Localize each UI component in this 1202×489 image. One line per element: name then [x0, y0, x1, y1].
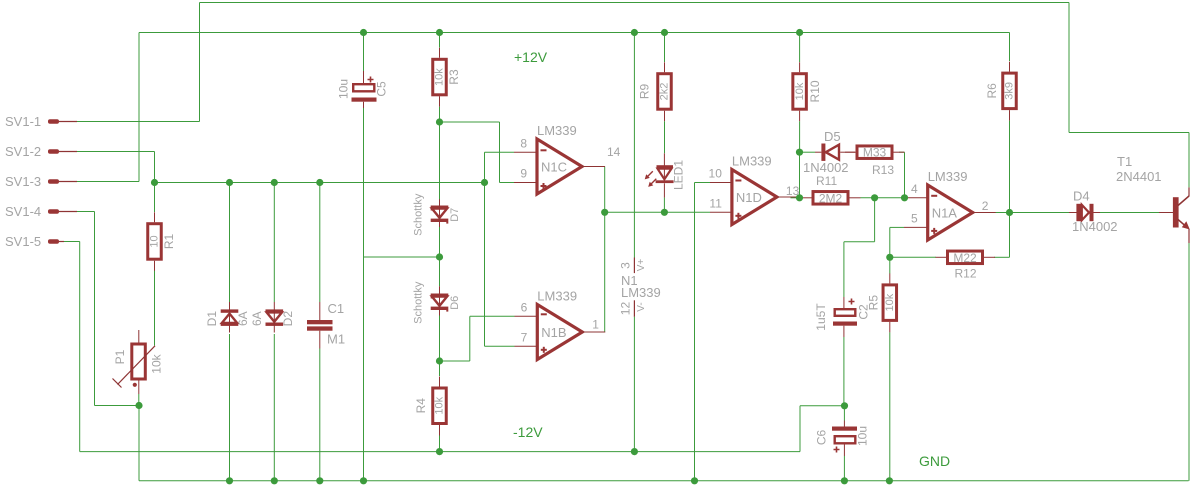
svg-text:4: 4: [911, 182, 918, 196]
junction: [841, 477, 848, 484]
wire: [229, 183, 231, 303]
wire: [439, 33, 441, 48]
svg-text:3: 3: [619, 262, 633, 269]
svg-text:LM339: LM339: [732, 154, 772, 169]
svg-text:8: 8: [520, 136, 527, 150]
wire: [139, 32, 1010, 34]
svg-text:5: 5: [911, 211, 918, 225]
svg-text:R5: R5: [866, 295, 880, 311]
wire: [904, 152, 906, 198]
wire: [77, 151, 155, 153]
wire: [77, 211, 95, 213]
junction: [436, 448, 443, 455]
svg-text:D6: D6: [449, 296, 461, 310]
svg-text:10k: 10k: [150, 353, 164, 373]
wire: [154, 152, 156, 183]
junction: [135, 402, 142, 409]
wire: [1069, 132, 1189, 134]
junction: [796, 29, 803, 36]
wire: [604, 167, 606, 332]
wire: [889, 227, 891, 257]
wire: [633, 317, 635, 452]
svg-text:D1: D1: [205, 311, 219, 327]
wire: [1009, 213, 1011, 258]
svg-text:D2: D2: [281, 311, 295, 327]
junction: [436, 118, 443, 125]
svg-text:SV1-1: SV1-1: [5, 114, 41, 129]
wire: [499, 122, 501, 183]
svg-text:M22: M22: [953, 251, 977, 265]
svg-text:2: 2: [982, 199, 989, 213]
wire: [799, 406, 801, 452]
wire: [844, 241, 875, 243]
svg-text:GND: GND: [919, 453, 950, 469]
svg-text:10k: 10k: [884, 293, 896, 311]
svg-text:LM339: LM339: [537, 123, 577, 138]
svg-text:2k2: 2k2: [659, 83, 671, 101]
wire: [139, 480, 1189, 482]
svg-text:SV1-3: SV1-3: [5, 174, 41, 189]
wire: [799, 121, 801, 152]
capacitor C5 (10u, polarized): [337, 71, 389, 108]
wire: [890, 256, 936, 258]
svg-text:R12: R12: [955, 267, 977, 281]
wire: [664, 33, 666, 63]
svg-text:10k: 10k: [434, 396, 446, 414]
svg-text:3k9: 3k9: [1004, 82, 1016, 100]
resistor R13: [845, 146, 905, 177]
wire: [1100, 212, 1159, 214]
svg-text:N1B: N1B: [541, 325, 566, 340]
wire: [861, 197, 907, 199]
svg-text:10: 10: [149, 235, 161, 247]
junction: [271, 179, 278, 186]
svg-text:1N4002: 1N4002: [803, 160, 849, 175]
resistor R10: [793, 62, 822, 121]
wire: [791, 197, 802, 199]
capacitor C2 (1u5T, polarized): [814, 297, 871, 337]
svg-text:R1: R1: [162, 233, 176, 249]
junction: [316, 477, 323, 484]
svg-text:6A: 6A: [250, 311, 264, 326]
junction: [886, 477, 893, 484]
wire: [889, 257, 891, 273]
svg-text:N1D: N1D: [736, 190, 762, 205]
junction: [481, 179, 488, 186]
junction: [1006, 209, 1013, 216]
junction: [436, 357, 443, 364]
wire: [440, 360, 470, 362]
svg-text:M1: M1: [327, 332, 345, 347]
wire: [633, 33, 635, 258]
wire: [80, 451, 800, 453]
junction: [436, 29, 443, 36]
wire: [994, 256, 1010, 258]
wire: [485, 345, 515, 347]
wire: [1188, 133, 1190, 188]
junction: [661, 29, 668, 36]
svg-text:1: 1: [592, 318, 599, 332]
wire: [138, 394, 140, 406]
junction: [796, 149, 803, 156]
svg-text:T1: T1: [1117, 154, 1132, 169]
wire: [1009, 121, 1011, 213]
wire: [200, 2, 1070, 4]
svg-text:+12V: +12V: [514, 49, 548, 65]
wire: [95, 405, 140, 407]
wire: [363, 108, 365, 257]
svg-text:10u: 10u: [337, 79, 351, 99]
wire: [889, 332, 891, 480]
svg-text:LM339: LM339: [928, 169, 968, 184]
wire: [77, 121, 200, 123]
resistor R11: [801, 174, 861, 205]
wire: [800, 405, 845, 407]
wire: [138, 406, 140, 481]
wire: [273, 334, 275, 481]
wire: [363, 257, 365, 481]
wire: [890, 226, 904, 228]
svg-text:D7: D7: [449, 208, 461, 222]
svg-text:Schottky: Schottky: [413, 193, 425, 236]
wire: [605, 211, 710, 213]
junction: [631, 448, 638, 455]
connector pin SV1-5: [5, 234, 64, 249]
junction: [631, 29, 638, 36]
svg-text:12: 12: [619, 302, 633, 316]
wire: [500, 182, 515, 184]
resistor R9: [638, 62, 672, 121]
wire: [843, 242, 845, 297]
svg-text:R6: R6: [985, 83, 999, 99]
svg-text:N1C: N1C: [541, 160, 567, 175]
wire: [485, 151, 515, 153]
resistor R4: [414, 377, 446, 436]
wire: [439, 257, 441, 286]
junction: [901, 194, 908, 201]
wire: [439, 107, 441, 122]
wire: [800, 151, 816, 153]
junction: [601, 209, 608, 216]
junction: [886, 254, 893, 261]
resistor R5: [866, 273, 896, 332]
diode D1 (6A): [205, 302, 250, 333]
transistor T1 (2N4401 NPN): [1116, 154, 1190, 243]
wire: [663, 198, 665, 213]
connector pin SV1-4: [5, 204, 77, 219]
svg-text:11: 11: [709, 196, 722, 210]
svg-text:V-: V-: [636, 302, 647, 311]
svg-text:2M2: 2M2: [819, 191, 843, 205]
wire: [364, 256, 440, 258]
wire: [154, 271, 156, 346]
svg-text:-12V: -12V: [513, 424, 543, 440]
junction: [226, 477, 233, 484]
wire: [799, 33, 801, 63]
svg-text:SV1-5: SV1-5: [5, 234, 41, 249]
svg-text:14: 14: [607, 145, 621, 159]
junction: [271, 477, 278, 484]
svg-text:LM339: LM339: [621, 285, 661, 300]
svg-text:10k: 10k: [794, 82, 806, 100]
wire: [899, 151, 905, 153]
svg-text:7: 7: [521, 330, 528, 344]
junction: [316, 179, 323, 186]
connector pin SV1-3: [5, 174, 77, 189]
wire: [439, 227, 441, 257]
svg-text:D4: D4: [1073, 189, 1090, 204]
junction: [436, 253, 443, 260]
wire: [470, 315, 515, 317]
resistor R1: [148, 212, 176, 271]
wire: [1009, 33, 1011, 62]
wire: [440, 121, 500, 123]
capacitor C6 (10u, polarized): [815, 421, 870, 457]
junction: [226, 179, 233, 186]
svg-text:1N4002: 1N4002: [1072, 219, 1118, 234]
svg-text:6A: 6A: [236, 311, 250, 326]
LED LED1: [645, 153, 686, 197]
junction: [661, 209, 668, 216]
connector pin SV1-2: [5, 144, 77, 159]
svg-text:M33: M33: [863, 146, 887, 160]
svg-text:D5: D5: [824, 129, 841, 144]
svg-text:SV1-2: SV1-2: [5, 144, 41, 159]
wire: [1068, 3, 1070, 133]
svg-text:6: 6: [521, 300, 528, 314]
wire: [439, 316, 441, 362]
wire: [199, 3, 201, 122]
svg-text:R13: R13: [872, 163, 894, 177]
wire: [695, 182, 711, 184]
svg-text:R3: R3: [447, 69, 461, 85]
svg-text:2N4401: 2N4401: [1116, 169, 1162, 184]
resistor R3: [433, 48, 461, 107]
wire: [843, 456, 845, 481]
svg-text:R9: R9: [638, 83, 652, 99]
wire: [77, 181, 139, 183]
wire: [273, 183, 275, 303]
wire: [138, 33, 140, 182]
connector pin SV1-1: [5, 114, 77, 129]
junction: [151, 179, 158, 186]
svg-text:C6: C6: [815, 430, 829, 446]
wire: [229, 334, 231, 481]
junction: [360, 477, 367, 484]
op-amp N1A (LM339): [904, 169, 996, 240]
wire: [79, 242, 81, 452]
wire: [94, 212, 96, 406]
capacitor C1 (M1): [307, 301, 345, 349]
wire: [664, 121, 666, 153]
wire: [1188, 243, 1190, 481]
svg-text:10k: 10k: [434, 68, 446, 86]
diode D7 (Schottky): [413, 193, 462, 236]
wire: [439, 122, 441, 200]
junction: [360, 29, 367, 36]
junction: [841, 402, 848, 409]
wire: [319, 183, 321, 303]
diode D5 (1N4002): [803, 129, 855, 175]
wire: [439, 361, 441, 376]
op-amp N1D (LM339): [709, 154, 800, 225]
wire: [155, 182, 485, 184]
svg-text:P1: P1: [113, 349, 127, 364]
svg-text:SV1-4: SV1-4: [5, 204, 41, 219]
svg-text:1u5T: 1u5T: [814, 303, 828, 331]
wire: [694, 183, 696, 481]
svg-text:10: 10: [709, 167, 723, 181]
svg-text:R10: R10: [808, 80, 822, 102]
junction: [871, 194, 878, 201]
wire: [319, 349, 321, 481]
svg-text:LED1: LED1: [672, 160, 686, 190]
junction: [691, 477, 698, 484]
power pins N1 (LM339 V+/V-): [619, 258, 661, 317]
resistor R6: [985, 62, 1016, 121]
wire: [363, 33, 365, 72]
svg-text:C1: C1: [328, 301, 345, 316]
resistor R12: [936, 251, 996, 281]
potentiometer P1: [113, 330, 164, 394]
op-amp N1B (LM339): [515, 289, 606, 360]
wire: [874, 198, 876, 242]
svg-text:N1A: N1A: [932, 206, 958, 221]
wire: [439, 436, 441, 452]
svg-text:LM339: LM339: [537, 289, 577, 304]
svg-text:R11: R11: [816, 174, 837, 188]
svg-text:V+: V+: [636, 259, 647, 272]
diode D6 (Schottky): [413, 281, 462, 324]
wire: [154, 183, 156, 213]
svg-text:9: 9: [520, 167, 527, 181]
wire: [799, 152, 801, 198]
svg-text:Schottky: Schottky: [413, 281, 425, 324]
svg-text:10u: 10u: [856, 426, 870, 446]
junction: [796, 194, 803, 201]
wire: [843, 337, 845, 406]
diode D2 (6A): [250, 302, 295, 333]
svg-text:R4: R4: [414, 398, 428, 414]
diode D4 (1N4002): [1069, 189, 1118, 235]
wire: [64, 241, 80, 243]
wire: [843, 406, 845, 421]
op-amp N1C (LM339): [514, 123, 621, 194]
wire: [994, 212, 1069, 214]
svg-text:C5: C5: [375, 81, 389, 97]
wire: [484, 152, 486, 346]
wire: [469, 316, 471, 361]
